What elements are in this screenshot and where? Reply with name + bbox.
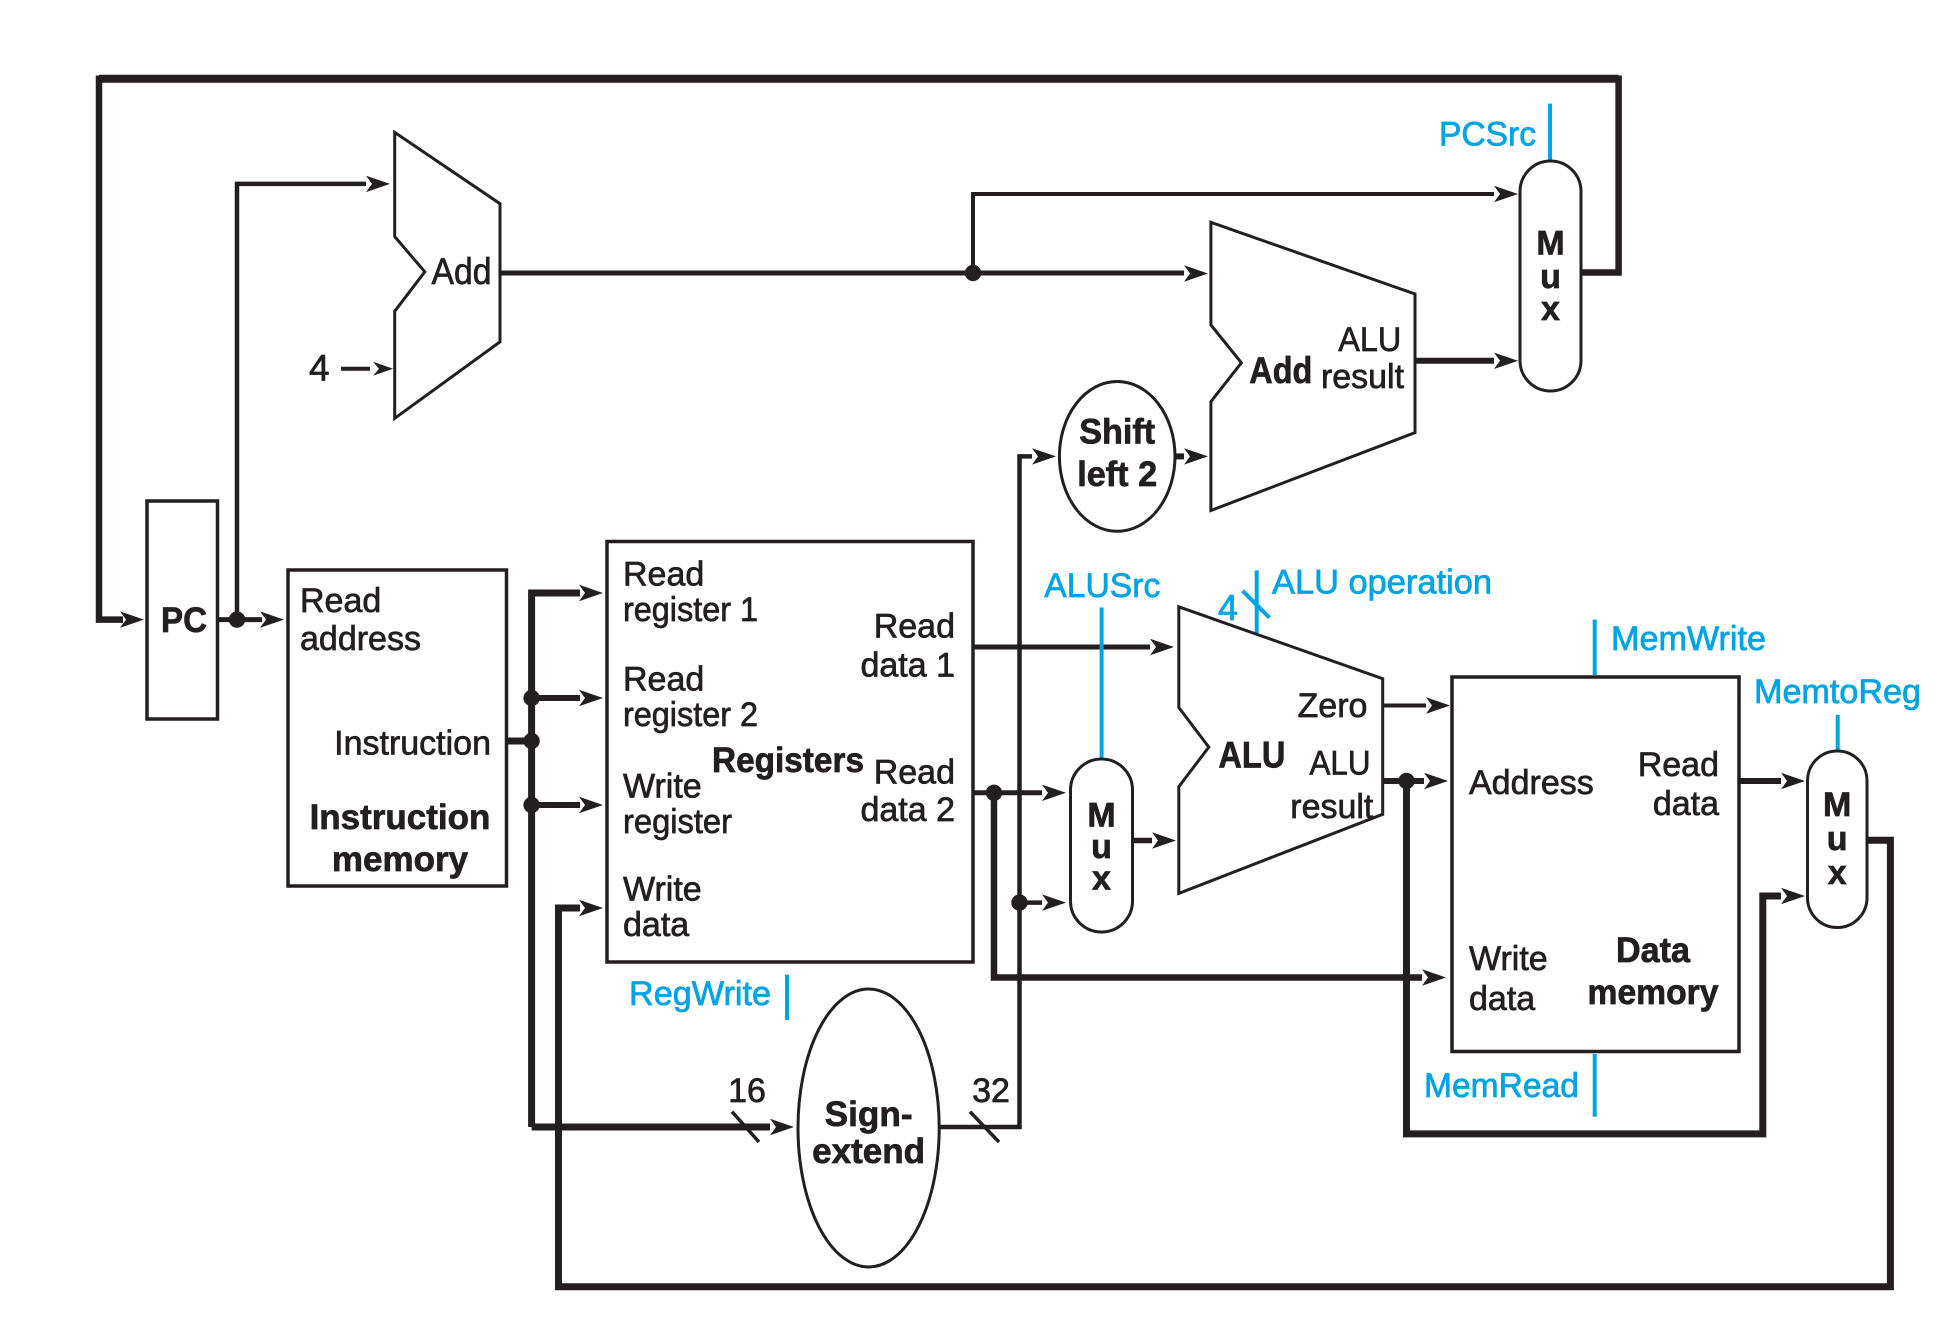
control MemRead line (1593, 1054, 1597, 1117)
ellipse Shift left 2 (1059, 382, 1175, 532)
label ALU operation (1272, 564, 1492, 602)
wire branch Add result to PCSrc Mux (1415, 353, 1518, 369)
svg-text:left 2: left 2 (1077, 455, 1157, 494)
svg-text:Registers: Registers (712, 741, 864, 780)
control ALU operation line with bus slash (1243, 570, 1270, 633)
svg-text:data: data (623, 906, 689, 944)
ellipse Sign-extend (798, 989, 939, 1267)
svg-text:Write: Write (623, 768, 702, 806)
wire instruction bus branch to Read register 2 (532, 690, 603, 706)
svg-text:ALU operation: ALU operation (1272, 564, 1492, 602)
svg-text:M: M (1536, 225, 1564, 263)
ALU (1179, 607, 1383, 894)
svg-text:data 2: data 2 (860, 791, 955, 829)
svg-text:ALU: ALU (1338, 321, 1401, 359)
svg-text:ALUSrc: ALUSrc (1044, 567, 1160, 605)
svg-text:MemRead: MemRead (1424, 1067, 1579, 1105)
svg-text:Zero: Zero (1298, 687, 1368, 725)
svg-text:data: data (1469, 980, 1535, 1018)
wire PC value up to PC+4 Add input (237, 176, 390, 620)
label ALUSrc (1044, 567, 1160, 605)
mux ALUSrc Mux (1071, 759, 1133, 932)
wire Read data 2 to ALUSrc Mux (973, 785, 1066, 801)
svg-text:address: address (300, 620, 421, 658)
bus width slash 16 (732, 1112, 759, 1142)
wire Read data 1 to ALU input (973, 639, 1174, 655)
node ALU result junction (1398, 773, 1414, 789)
node PC+4 junction (965, 265, 981, 281)
svg-text:Read: Read (874, 754, 955, 792)
adder Add (branch target) (1211, 222, 1415, 510)
svg-text:result: result (1290, 788, 1374, 826)
svg-text:data 1: data 1 (860, 647, 955, 685)
block Data memory (1452, 677, 1739, 1052)
svg-text:Read: Read (1638, 746, 1719, 784)
svg-text:ALU: ALU (1310, 745, 1371, 783)
wire constant 4 to Add (341, 362, 393, 376)
svg-text:ALU: ALU (1218, 735, 1285, 776)
svg-text:Add: Add (1249, 350, 1312, 391)
svg-text:Read: Read (300, 582, 381, 620)
svg-text:extend: extend (812, 1132, 925, 1171)
svg-text:32: 32 (972, 1072, 1010, 1110)
wire PC+4 result to branch Add input (500, 265, 1208, 281)
block Instruction memory (288, 570, 507, 886)
svg-text:Address: Address (1469, 764, 1594, 802)
control ALUSrc line (1100, 608, 1104, 758)
control RegWrite line (785, 975, 789, 1020)
wire instruction bus to Sign-extend (532, 1119, 794, 1135)
svg-text:data: data (1653, 785, 1719, 823)
wire Shift left 2 to branch Add input (1175, 448, 1208, 464)
wire instruction bus branch to Write register (532, 797, 603, 813)
wire sign-extend branch to ALUSrc Mux (1020, 894, 1067, 910)
register PC (147, 501, 218, 719)
wire instruction bus vertical and branch to Read register 1 (532, 585, 603, 1127)
control MemtoReg line (1836, 715, 1840, 750)
svg-text:Data: Data (1616, 931, 1691, 970)
control MemWrite line (1593, 620, 1597, 676)
node sign-extend output junction (1011, 894, 1027, 910)
wire top feedback thick segment (99, 75, 1619, 83)
svg-text:Read: Read (623, 661, 704, 699)
node instruction bus junction read register 2 (523, 690, 539, 706)
wire PC feedback loop (PCSrc Mux output to PC input) (99, 79, 1619, 628)
svg-text:Read: Read (623, 556, 704, 594)
wire Read data 2 branch to Data memory Write data (994, 793, 1446, 986)
svg-text:x: x (1828, 854, 1847, 892)
label PCSrc (1439, 116, 1536, 154)
bus width slash 32 (970, 1112, 999, 1142)
svg-text:PC: PC (161, 601, 207, 640)
label 32 bus width (972, 1072, 1010, 1110)
node PC output junction (229, 611, 245, 627)
svg-text:MemtoReg: MemtoReg (1754, 673, 1921, 711)
node instruction bus junction instruction (523, 733, 539, 749)
mux MemtoReg Mux (1808, 751, 1868, 928)
svg-text:register 2: register 2 (623, 696, 758, 734)
wire ALU result loop to MemtoReg Mux (1407, 781, 1806, 1134)
wire MemtoReg Mux output loop to Registers Write data (559, 840, 1891, 1286)
wire ALU result to Data memory Address (1383, 773, 1448, 789)
node read data 2 junction (986, 785, 1002, 801)
label MemRead (1424, 1067, 1579, 1105)
wire Instruction output to bus (507, 738, 532, 745)
svg-text:M: M (1823, 786, 1851, 824)
svg-text:4: 4 (1218, 587, 1238, 628)
svg-text:Instruction: Instruction (334, 724, 491, 762)
svg-text:u: u (1827, 820, 1848, 858)
svg-text:Sign-: Sign- (825, 1095, 913, 1134)
svg-text:Read: Read (874, 608, 955, 646)
svg-text:Write: Write (623, 871, 702, 909)
wire PC to Read address (218, 611, 285, 627)
wire ALU Zero output (1383, 697, 1450, 713)
label constant 4 (309, 347, 330, 388)
label MemtoReg (1754, 673, 1921, 711)
svg-text:x: x (1092, 860, 1111, 898)
label MemWrite (1611, 620, 1766, 658)
label 16 bus width (728, 1072, 766, 1110)
control PCSrc line (1548, 104, 1552, 160)
svg-text:Write: Write (1469, 940, 1548, 978)
svg-text:memory: memory (1588, 973, 1720, 1012)
svg-text:register 1: register 1 (623, 591, 758, 629)
svg-text:Add: Add (432, 251, 492, 292)
block Registers (607, 542, 973, 963)
svg-text:MemWrite: MemWrite (1611, 620, 1766, 658)
mux PCSrc Mux (1520, 161, 1581, 391)
svg-text:4: 4 (309, 347, 330, 388)
wire ALUSrc Mux output to ALU input (1133, 832, 1177, 848)
svg-text:Instruction: Instruction (310, 798, 491, 837)
label 4 ALU operation bus width (1218, 587, 1238, 628)
svg-text:x: x (1541, 290, 1560, 328)
wire Data memory Read data to MemtoReg Mux (1739, 773, 1805, 789)
svg-text:RegWrite: RegWrite (629, 975, 771, 1013)
svg-text:PCSrc: PCSrc (1439, 116, 1536, 154)
svg-text:register: register (623, 803, 732, 841)
adder Add (PC+4) (395, 132, 500, 418)
wire Sign-extend output to Shift left 2 (939, 448, 1056, 1127)
node instruction bus junction write register (523, 797, 539, 813)
svg-text:Shift: Shift (1079, 413, 1155, 452)
svg-text:16: 16 (728, 1072, 766, 1110)
svg-text:memory: memory (332, 840, 469, 879)
svg-text:result: result (1321, 358, 1405, 396)
wire PC+4 to PCSrc Mux top input (973, 186, 1518, 273)
label RegWrite (629, 975, 771, 1013)
